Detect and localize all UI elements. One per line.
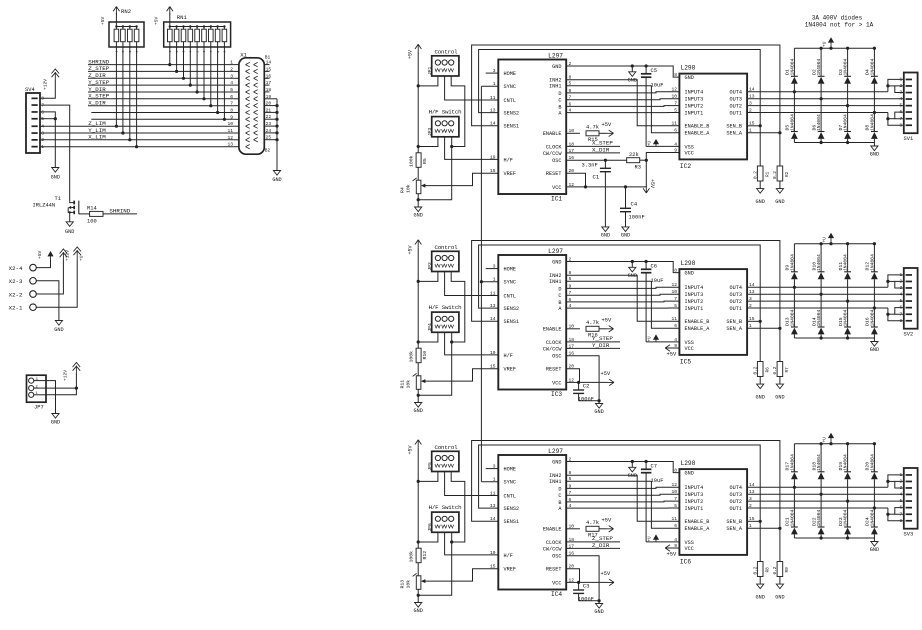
svg-text:100k: 100k bbox=[409, 551, 415, 563]
ground GND (R1) bbox=[757, 189, 764, 194]
svg-text:INPUT1: INPUT1 bbox=[685, 110, 704, 116]
junction VCC / C cap bbox=[577, 581, 580, 584]
svg-text:ENABLE_B: ENABLE_B bbox=[685, 519, 710, 525]
svg-text:X2-1: X2-1 bbox=[9, 305, 23, 312]
wire SV4 pin7 to T1 drain bbox=[40, 105, 70, 201]
svg-text:0.2: 0.2 bbox=[753, 366, 758, 374]
terminal X2-1 bbox=[30, 304, 37, 311]
svg-text:18: 18 bbox=[266, 87, 272, 93]
svg-text:HOME: HOME bbox=[504, 71, 516, 77]
wire GND net drop bbox=[418, 542, 452, 595]
wire phase B to INPUT2 bbox=[566, 105, 679, 108]
wire JP5 pin1 to +5V bbox=[418, 472, 438, 482]
wire JP7 pin3 to GND bbox=[46, 381, 56, 414]
wire CW/CCW net Y_DIR bbox=[566, 347, 620, 349]
wire SEN_A stub bbox=[747, 327, 780, 329]
svg-text:1N4004: 1N4004 bbox=[816, 58, 822, 75]
svg-text:X2-4: X2-4 bbox=[9, 265, 23, 272]
junction D10 output node bbox=[820, 293, 823, 296]
svg-text:GND: GND bbox=[414, 213, 423, 219]
wire SENS2 feedback line bbox=[479, 245, 761, 321]
svg-text:VSS: VSS bbox=[685, 540, 694, 546]
svg-text:SEN_B: SEN_B bbox=[726, 124, 742, 130]
wire SV3 pin6-7 bracket bbox=[895, 508, 904, 515]
svg-text:IC2: IC2 bbox=[680, 163, 691, 170]
svg-text:X2-2: X2-2 bbox=[9, 291, 23, 298]
svg-text:10uF: 10uF bbox=[651, 83, 664, 89]
svg-text:RN1: RN1 bbox=[177, 14, 188, 21]
svg-text:100k: 100k bbox=[409, 155, 415, 167]
svg-text:VCC: VCC bbox=[685, 346, 694, 352]
wire SV4 pin6 to GND bbox=[40, 112, 55, 119]
svg-text:SENS1: SENS1 bbox=[504, 519, 520, 525]
wire phase D to INPUT4 bbox=[566, 487, 679, 488]
wire INH2 to ENABLE_B bbox=[566, 80, 679, 126]
svg-text:R11: R11 bbox=[400, 380, 406, 389]
wire R3 to +5V net bbox=[640, 159, 647, 161]
resistor R15 4.7k pull-up bbox=[566, 132, 580, 134]
wire SYNC bus connecting IC1 IC3 IC4 bbox=[480, 86, 482, 482]
svg-text:+U: +U bbox=[649, 536, 653, 542]
svg-text:+5V: +5V bbox=[667, 551, 677, 557]
wire SV2 pin8 jog bbox=[888, 308, 904, 321]
svg-text:+U: +U bbox=[822, 41, 828, 47]
junction on +5V rail (JP pin1) bbox=[417, 84, 420, 87]
svg-text:X_DIR: X_DIR bbox=[592, 146, 610, 153]
+5V arrow RN1 bbox=[169, 13, 171, 27]
svg-text:13: 13 bbox=[227, 142, 233, 148]
junction H/F switch GND net bbox=[450, 145, 453, 148]
svg-text:C: C bbox=[558, 493, 561, 499]
svg-text:1N4004: 1N4004 bbox=[790, 114, 796, 131]
wire diode ground rail bbox=[794, 537, 874, 539]
wire OSC row bbox=[566, 159, 627, 161]
svg-text:INPUT2: INPUT2 bbox=[685, 499, 704, 505]
connector SV3 motor output bbox=[904, 468, 918, 529]
wire OUT2 to SV2 bbox=[747, 300, 904, 302]
svg-text:R9: R9 bbox=[785, 567, 790, 573]
resistor R5 100k bbox=[416, 153, 421, 168]
wire JP1 pin1 to +5V bbox=[418, 76, 438, 86]
svg-text:1N4004: 1N4004 bbox=[790, 454, 796, 471]
ground GND (diodes) bbox=[873, 338, 875, 342]
svg-text:VSS: VSS bbox=[685, 144, 694, 150]
svg-text:C: C bbox=[558, 98, 561, 104]
svg-text:B: B bbox=[558, 104, 561, 110]
svg-text:GND: GND bbox=[414, 608, 423, 614]
svg-text:1N4004: 1N4004 bbox=[870, 509, 876, 526]
svg-text:6: 6 bbox=[230, 94, 233, 100]
wire trimmer bottom to GND bbox=[417, 194, 419, 200]
svg-text:L298: L298 bbox=[681, 460, 696, 467]
svg-text:ENABLE: ENABLE bbox=[543, 131, 562, 137]
wire JP4 pin3 to GND net bbox=[451, 332, 453, 342]
svg-text:ENABLE_A: ENABLE_A bbox=[685, 526, 711, 532]
svg-text:+5V: +5V bbox=[100, 16, 106, 25]
svg-text:+5V: +5V bbox=[601, 571, 611, 577]
svg-text:CNTL: CNTL bbox=[504, 293, 516, 299]
resistor R8 0.2 sense bbox=[759, 521, 761, 561]
junction OSC/C GND bbox=[598, 399, 601, 402]
svg-text:RESET: RESET bbox=[546, 567, 562, 573]
svg-text:GND: GND bbox=[552, 64, 561, 70]
svg-text:VCC: VCC bbox=[685, 150, 694, 156]
junction C4 tap bbox=[624, 185, 627, 188]
wire phase C to INPUT3 bbox=[566, 294, 679, 295]
diode D10 1N4004 bbox=[820, 244, 822, 272]
svg-text:INPUT1: INPUT1 bbox=[685, 506, 704, 512]
ground GND (R9) bbox=[776, 584, 783, 589]
svg-text:1N4004: 1N4004 bbox=[816, 309, 822, 326]
svg-text:SEN_B: SEN_B bbox=[726, 319, 742, 325]
svg-text:1N4004: 1N4004 bbox=[843, 58, 849, 75]
svg-text:OUT3: OUT3 bbox=[730, 292, 742, 298]
wire OUT3 to SV3 bbox=[747, 493, 904, 495]
svg-text:SV3: SV3 bbox=[904, 531, 914, 537]
resistor R9 0.2 sense bbox=[779, 528, 781, 561]
svg-text:X1: X1 bbox=[240, 52, 247, 59]
wire JP5 pin2 to CNTL bbox=[445, 472, 499, 496]
svg-text:X_LIM: X_LIM bbox=[88, 134, 106, 141]
wire SV2 pin1 jog bbox=[888, 275, 904, 287]
wire SEN_B stub bbox=[747, 320, 760, 322]
svg-text:OSC: OSC bbox=[552, 354, 561, 360]
wire phase B to INPUT2 bbox=[566, 300, 679, 303]
svg-text:GND: GND bbox=[594, 409, 603, 415]
ground GND (R7) bbox=[776, 384, 783, 389]
wire RESET to VCC bbox=[566, 369, 579, 383]
svg-text:JP4: JP4 bbox=[427, 323, 433, 332]
svg-text:5: 5 bbox=[230, 87, 233, 93]
capacitor C7 10uF bbox=[645, 462, 647, 470]
diode D4 1N4004 bbox=[873, 48, 875, 76]
wire SV4 ground drop bbox=[54, 119, 56, 168]
svg-text:R12: R12 bbox=[422, 551, 428, 560]
wire X2-2 to +12V bbox=[36, 260, 63, 294]
wire VCC row to +5V arrow bbox=[566, 381, 607, 383]
svg-text:4: 4 bbox=[899, 492, 902, 498]
resistor R12 100k bbox=[416, 548, 421, 563]
svg-text:15: 15 bbox=[490, 364, 496, 370]
svg-text:19: 19 bbox=[266, 94, 272, 100]
motor supply arrow +U bbox=[830, 435, 832, 444]
junction OSC / C1 bbox=[604, 159, 607, 162]
svg-text:OUT3: OUT3 bbox=[730, 492, 742, 498]
diode D12 1N4004 bbox=[873, 244, 875, 272]
svg-text:19: 19 bbox=[490, 350, 496, 356]
+5V arrow at VCC bbox=[607, 379, 614, 385]
wire GND net (logic ground) bbox=[566, 262, 679, 273]
svg-text:JP2: JP2 bbox=[427, 262, 433, 271]
svg-text:+U: +U bbox=[822, 437, 828, 443]
svg-text:T1: T1 bbox=[55, 196, 61, 202]
wire OUT4 to SV2 bbox=[747, 286, 888, 288]
diode D21 1N4004 bbox=[793, 487, 795, 527]
svg-text:SENS2: SENS2 bbox=[504, 111, 520, 117]
svg-text:4.7k: 4.7k bbox=[586, 520, 599, 526]
svg-text:14: 14 bbox=[490, 516, 496, 522]
svg-text:SEN_A: SEN_A bbox=[726, 526, 742, 532]
svg-text:15: 15 bbox=[490, 168, 496, 174]
junction D11 output node bbox=[846, 300, 849, 303]
svg-text:100k: 100k bbox=[409, 351, 415, 363]
junction SV4 ground bbox=[54, 117, 57, 120]
svg-text:VCC: VCC bbox=[552, 580, 561, 586]
+5V arrow at IC5 VCC bbox=[665, 345, 672, 351]
junction GND symbol tap bbox=[631, 64, 634, 67]
diode D5 1N4004 bbox=[793, 92, 795, 132]
svg-text:1N4004: 1N4004 bbox=[843, 114, 849, 131]
svg-text:1: 1 bbox=[41, 144, 44, 150]
svg-text:Z_DIR: Z_DIR bbox=[592, 542, 610, 549]
svg-text:8: 8 bbox=[230, 108, 233, 114]
resistor R17 4.7k pull-up bbox=[566, 528, 580, 530]
svg-text:H/F Switch: H/F Switch bbox=[429, 109, 462, 116]
svg-text:CLOCK: CLOCK bbox=[546, 144, 562, 150]
wire JP3 pin3 to GND net bbox=[451, 137, 453, 147]
diode D24 1N4004 bbox=[873, 508, 875, 527]
svg-text:R13: R13 bbox=[400, 580, 406, 589]
wire JP6 pin3 to GND net bbox=[451, 532, 453, 542]
wire +5V rail vertical bbox=[417, 248, 419, 349]
svg-text:16: 16 bbox=[266, 73, 272, 79]
+12V supply arrow (SV4) bbox=[54, 72, 56, 80]
svg-text:B1: B1 bbox=[265, 55, 271, 61]
svg-text:RESET: RESET bbox=[546, 367, 562, 373]
diode D17 1N4004 bbox=[793, 444, 795, 472]
wire trimmer wiper to VREF bbox=[424, 369, 499, 381]
svg-text:D: D bbox=[558, 286, 561, 292]
svg-text:0.2: 0.2 bbox=[753, 171, 758, 179]
svg-text:+12V: +12V bbox=[65, 250, 71, 261]
svg-text:SV2: SV2 bbox=[904, 331, 914, 337]
junction D2 output node bbox=[820, 97, 823, 100]
svg-text:C3: C3 bbox=[583, 582, 590, 589]
svg-text:D: D bbox=[558, 91, 561, 97]
svg-text:C7: C7 bbox=[651, 464, 657, 470]
svg-text:R10: R10 bbox=[422, 351, 428, 360]
wire INH2 to ENABLE_B bbox=[566, 475, 679, 521]
motor supply arrow +U bbox=[830, 235, 832, 244]
svg-text:GND: GND bbox=[685, 75, 694, 81]
svg-text:4.7k: 4.7k bbox=[586, 320, 599, 326]
svg-text:1N4004: 1N4004 bbox=[816, 509, 822, 526]
wire diode ground rail bbox=[794, 337, 874, 339]
svg-text:13: 13 bbox=[490, 108, 496, 114]
svg-text:GND: GND bbox=[685, 471, 694, 477]
+12V supply arrow (JP7) bbox=[75, 366, 77, 374]
svg-text:C5: C5 bbox=[651, 68, 657, 74]
+12V supply arrow (X2-2) bbox=[62, 252, 64, 260]
svg-text:OUT1: OUT1 bbox=[730, 110, 742, 116]
svg-text:R3: R3 bbox=[635, 164, 641, 170]
wire OUT1 to SV3 bbox=[747, 507, 888, 509]
wire JP2 pin2 to CNTL bbox=[445, 272, 499, 296]
wire INH2 to ENABLE_B bbox=[566, 275, 679, 321]
svg-text:21: 21 bbox=[266, 107, 272, 113]
resistor R10 100k bbox=[416, 348, 421, 363]
motor supply arrow +U at VS bbox=[655, 536, 657, 542]
svg-text:HOME: HOME bbox=[504, 467, 516, 473]
connector SV4 bbox=[26, 93, 40, 153]
junction diode rail bbox=[873, 442, 876, 445]
capacitor C5 10uF bbox=[645, 66, 647, 74]
wire SV1 pin8 jog bbox=[888, 113, 904, 126]
junction SEN_B bbox=[759, 320, 762, 323]
svg-text:GND: GND bbox=[594, 609, 603, 615]
ground GND (diodes) bbox=[873, 143, 875, 147]
wire X2-4 to +5V bbox=[36, 260, 50, 268]
svg-text:INPUT4: INPUT4 bbox=[685, 285, 704, 291]
svg-text:ENABLE_B: ENABLE_B bbox=[685, 319, 710, 325]
wire JP6 pin2 to H/F bbox=[445, 532, 499, 555]
capacitor C1 3.3nF bbox=[600, 167, 611, 169]
svg-text:L297: L297 bbox=[548, 52, 563, 59]
svg-text:15: 15 bbox=[490, 564, 496, 570]
junction trimmer GND bbox=[417, 594, 420, 597]
wire SV4 pin5 to GND bbox=[40, 118, 55, 120]
diode D22 1N4004 bbox=[820, 494, 822, 527]
connector JP3 H/F jumper bbox=[432, 117, 459, 137]
wire VCC of IC2 to +5V net bbox=[646, 153, 679, 187]
wire SEN_A stub bbox=[747, 527, 780, 529]
wire rail to trimmer bbox=[417, 363, 419, 376]
junction diode rail bbox=[846, 442, 849, 445]
wire +5V rail vertical bbox=[417, 448, 419, 549]
wire phase C to INPUT3 bbox=[566, 99, 679, 100]
svg-text:+5V: +5V bbox=[602, 517, 612, 523]
wire X1 ground bus pins 19-25 bbox=[276, 99, 278, 171]
+5V supply arrow (IC3 rail) bbox=[415, 240, 421, 248]
wire VS pin to motor supply bbox=[646, 145, 679, 147]
svg-text:GND: GND bbox=[775, 199, 784, 205]
svg-text:Y_DIR: Y_DIR bbox=[592, 342, 610, 349]
diode D18 1N4004 bbox=[820, 444, 822, 472]
svg-text:JP6: JP6 bbox=[427, 523, 433, 532]
svg-text:H/F: H/F bbox=[504, 157, 513, 163]
wire GND net drop bbox=[418, 147, 452, 200]
svg-text:JP5: JP5 bbox=[427, 462, 433, 471]
svg-text:5: 5 bbox=[899, 103, 902, 109]
svg-text:10k: 10k bbox=[405, 380, 411, 389]
svg-text:JP7: JP7 bbox=[34, 405, 44, 411]
svg-text:CNTL: CNTL bbox=[504, 493, 516, 499]
wire trimmer wiper to VREF bbox=[424, 173, 499, 185]
svg-text:1: 1 bbox=[230, 60, 233, 66]
svg-text:INPUT4: INPUT4 bbox=[685, 90, 704, 96]
diode D13 1N4004 bbox=[793, 287, 795, 327]
resistor network RN2 pull-ups bbox=[109, 22, 144, 47]
svg-text:B: B bbox=[558, 300, 561, 306]
ground GND (C2) bbox=[598, 401, 600, 404]
junction VCC / C cap bbox=[577, 381, 580, 384]
svg-text:3.3nF: 3.3nF bbox=[582, 163, 598, 169]
resistor R6 0.2 sense bbox=[759, 321, 761, 361]
svg-text:SV4: SV4 bbox=[25, 87, 35, 93]
junction D17 output node bbox=[793, 486, 796, 489]
junction diode rail bbox=[873, 242, 876, 245]
junction on +5V rail (JP pin1, H/F switch) bbox=[417, 540, 420, 543]
connector X1 DB25 bbox=[239, 58, 264, 154]
terminal X2-2 bbox=[30, 291, 37, 298]
svg-text:Control: Control bbox=[435, 444, 459, 451]
wire JP3 pin2 to H/F bbox=[445, 137, 499, 160]
svg-text:CLOCK: CLOCK bbox=[546, 540, 562, 546]
svg-text:GND: GND bbox=[628, 77, 637, 83]
svg-text:4: 4 bbox=[899, 292, 902, 298]
resistor R14 100 gate bbox=[79, 213, 90, 215]
svg-text:B: B bbox=[558, 500, 561, 506]
junction SEN_B bbox=[759, 124, 762, 127]
wire trimmer bottom to GND bbox=[417, 589, 419, 595]
wire OUT2 to SV3 bbox=[747, 500, 904, 502]
svg-text:Control: Control bbox=[435, 244, 459, 251]
svg-text:1N4004: 1N4004 bbox=[843, 454, 849, 471]
svg-text:1: 1 bbox=[493, 81, 496, 87]
svg-text:INPUT4: INPUT4 bbox=[685, 485, 704, 491]
svg-text:GND: GND bbox=[870, 547, 879, 553]
svg-text:C6: C6 bbox=[651, 264, 657, 270]
connector JP1 Control jumper bbox=[432, 56, 459, 76]
svg-text:GND: GND bbox=[552, 459, 561, 465]
diode D9 1N4004 bbox=[793, 244, 795, 272]
svg-text:VREF: VREF bbox=[504, 567, 516, 573]
svg-text:+U: +U bbox=[649, 140, 653, 146]
svg-text:1N4004: 1N4004 bbox=[790, 509, 796, 526]
svg-text:1N4004: 1N4004 bbox=[843, 309, 849, 326]
svg-text:17: 17 bbox=[266, 80, 272, 86]
svg-text:OSC: OSC bbox=[552, 554, 561, 560]
svg-text:+5V: +5V bbox=[408, 245, 414, 254]
svg-text:C4: C4 bbox=[631, 201, 638, 208]
+5V arrow RN2 bbox=[115, 13, 117, 27]
wire SV1 pin2-3 bracket bbox=[895, 86, 904, 93]
junction H/F switch GND net bbox=[450, 540, 453, 543]
svg-text:1N4004: 1N4004 bbox=[843, 254, 849, 271]
svg-text:SHRIND: SHRIND bbox=[109, 207, 130, 214]
svg-text:VCC: VCC bbox=[552, 380, 561, 386]
svg-text:4: 4 bbox=[41, 124, 44, 130]
svg-text:GND: GND bbox=[756, 199, 765, 205]
+5V arrow at IC6 VCC bbox=[665, 545, 672, 551]
motor supply arrow +U at VS bbox=[655, 336, 657, 342]
junction GND symbol tap bbox=[631, 260, 634, 263]
svg-text:H/F: H/F bbox=[504, 553, 513, 559]
diode D3 1N4004 bbox=[847, 48, 849, 76]
parallel port signal rows bbox=[88, 64, 234, 66]
svg-text:SENS2: SENS2 bbox=[504, 506, 520, 512]
svg-text:1: 1 bbox=[493, 277, 496, 283]
ground GND (R6) bbox=[757, 384, 764, 389]
svg-text:+5V: +5V bbox=[601, 371, 611, 377]
svg-text:1N4004: 1N4004 bbox=[790, 309, 796, 326]
capacitor C6 10uF bbox=[645, 262, 647, 270]
svg-text:INPUT3: INPUT3 bbox=[685, 292, 704, 298]
svg-text:3: 3 bbox=[41, 130, 44, 136]
svg-text:INPUT2: INPUT2 bbox=[685, 104, 704, 110]
svg-text:3A 400V diodes: 3A 400V diodes bbox=[812, 14, 863, 21]
resistor network RN1 pull-ups bbox=[164, 22, 231, 47]
wire CW/CCW net X_DIR bbox=[566, 152, 620, 154]
svg-text:1N4004: 1N4004 bbox=[870, 114, 876, 131]
svg-text:INPUT2: INPUT2 bbox=[685, 299, 704, 305]
capacitor C4 100nF bbox=[625, 187, 627, 208]
+5V arrow (logic supply) bbox=[643, 186, 649, 193]
svg-text:JP1: JP1 bbox=[427, 66, 433, 75]
resistor R3 22k bbox=[627, 158, 640, 163]
svg-text:100nF: 100nF bbox=[578, 397, 594, 403]
svg-text:10uF: 10uF bbox=[651, 478, 664, 484]
